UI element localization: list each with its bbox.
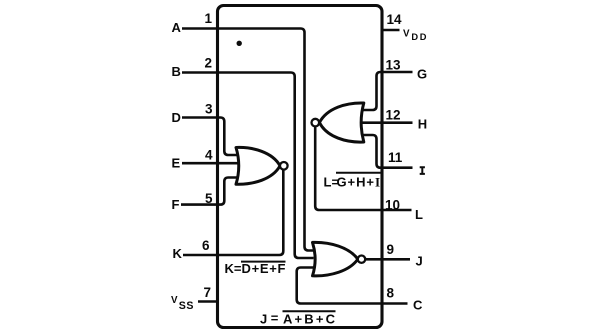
wire J gate U1c output to pin9 — [365, 258, 410, 261]
svg-text:K=: K= — [225, 261, 242, 276]
nor gate U1c output bubble — [358, 256, 365, 263]
svg-text:=: = — [271, 310, 279, 325]
svg-text:B: B — [172, 64, 181, 79]
svg-text:J: J — [416, 254, 423, 269]
svg-text:2: 2 — [204, 56, 212, 71]
svg-text:14: 14 — [387, 12, 403, 27]
svg-text:10: 10 — [385, 197, 400, 212]
svg-text:D+E+F: D+E+F — [242, 261, 286, 276]
wire E pin4 to gate U1a input — [182, 162, 238, 165]
wire D pin3 to gate U1a input — [182, 118, 237, 156]
svg-text:11: 11 — [388, 150, 403, 165]
svg-text:12: 12 — [386, 107, 401, 122]
wire F pin5 to gate U1a input — [181, 178, 237, 205]
svg-text:G: G — [417, 66, 427, 81]
svg-text:3: 3 — [205, 102, 213, 117]
equation J overbar — [283, 310, 336, 312]
svg-text:E: E — [172, 156, 181, 171]
nor gate U1a body (D,E,F) — [236, 147, 280, 184]
svg-text:C: C — [413, 297, 423, 312]
power VSS pin7 stub — [198, 300, 217, 303]
wire K gate U1a output to pin6 — [183, 169, 283, 255]
svg-text:J: J — [260, 311, 267, 326]
svg-text:K: K — [173, 246, 183, 261]
svg-text:5: 5 — [205, 191, 213, 206]
svg-text:A+B+C: A+B+C — [283, 311, 336, 326]
svg-text:13: 13 — [386, 57, 402, 72]
wire L gate U1b output to pin10 — [315, 127, 411, 211]
wire B pin2 to gate U1c input — [182, 73, 314, 259]
svg-text:H: H — [418, 116, 427, 131]
IC body U1 — [218, 6, 383, 328]
svg-text:V: V — [171, 295, 178, 306]
nor gate U1b output bubble — [312, 119, 320, 127]
wire C pin8 to gate U1c input — [297, 268, 408, 304]
wire H pin12 to gate U1b input — [362, 121, 413, 124]
power VDD pin14 stub — [382, 29, 400, 32]
wire G pin13 to gate U1b input — [363, 72, 413, 110]
svg-text:L: L — [415, 207, 423, 222]
node I label — [420, 167, 425, 174]
svg-text:G+H+I: G+H+I — [337, 175, 381, 190]
svg-text:D: D — [172, 110, 181, 125]
nor gate U1c body (A,B,C) — [313, 242, 358, 276]
equation L overbar — [336, 172, 381, 174]
svg-text:A: A — [172, 20, 182, 35]
wire A pin1 to gate U1c input — [182, 29, 314, 251]
svg-text:F: F — [172, 197, 180, 212]
wire I pin11 to gate U1b input — [363, 135, 413, 168]
svg-text:SS: SS — [179, 300, 194, 312]
pin 1 indicator dot — [237, 41, 242, 46]
nor gate U1a output bubble — [280, 162, 288, 170]
svg-text:4: 4 — [205, 148, 213, 163]
svg-text:DD: DD — [411, 32, 428, 42]
svg-text:8: 8 — [387, 286, 395, 301]
svg-text:1: 1 — [204, 11, 212, 26]
svg-text:9: 9 — [387, 242, 395, 257]
svg-text:7: 7 — [203, 285, 211, 300]
equation K overbar — [241, 261, 286, 263]
svg-text:6: 6 — [202, 238, 210, 253]
nor gate U1b body (G,H,I) mirrored — [319, 103, 363, 142]
svg-text:V: V — [403, 28, 410, 39]
